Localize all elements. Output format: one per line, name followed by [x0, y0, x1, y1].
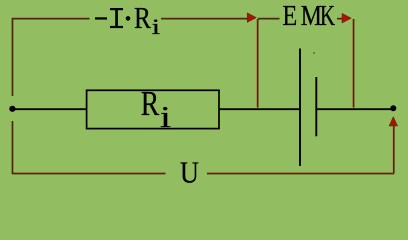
svg-text:R: R — [134, 2, 151, 36]
svg-text:R: R — [141, 84, 159, 123]
svg-text:U: U — [180, 155, 199, 189]
svg-text:i: i — [160, 100, 171, 134]
svg-text:M: M — [301, 0, 322, 31]
svg-text:i: i — [152, 14, 160, 39]
svg-text:K: K — [320, 1, 335, 32]
svg-text:E: E — [282, 1, 297, 32]
